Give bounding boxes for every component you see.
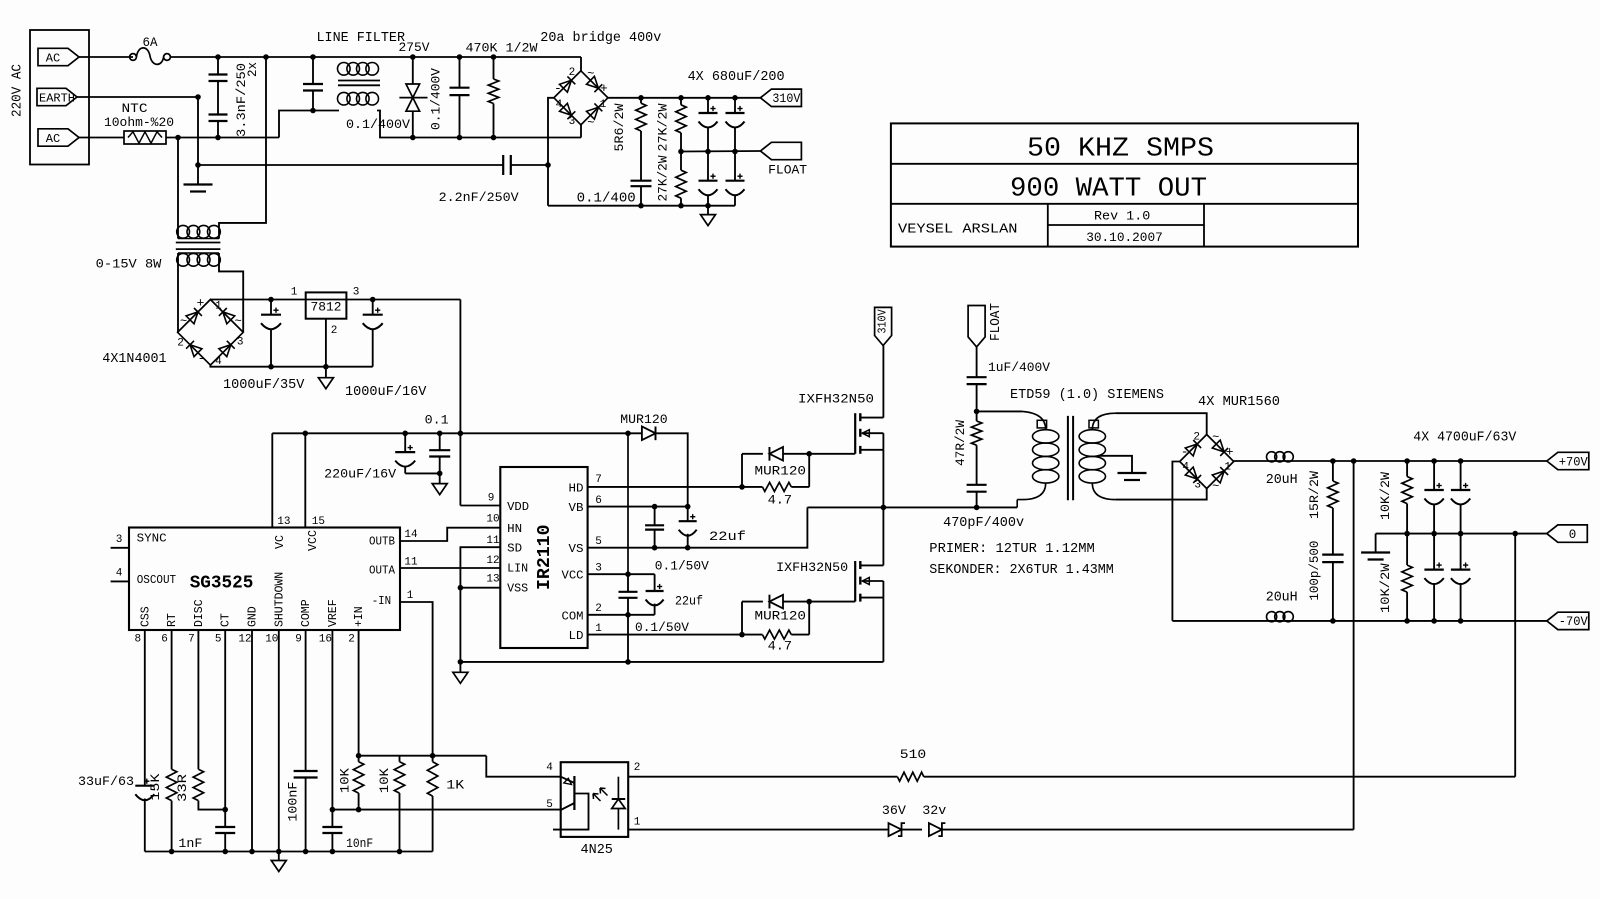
svg-text:32v: 32v (922, 804, 947, 818)
svg-text:SYNC: SYNC (137, 532, 167, 546)
svg-text:LIN: LIN (507, 562, 528, 576)
svg-text:22uf: 22uf (675, 594, 703, 609)
label 20a bridge 400v (540, 31, 661, 46)
svg-text:3.3nF/250: 3.3nF/250 (234, 63, 249, 137)
regulator 7812 (291, 287, 360, 367)
capacitor 680uF/200 #4 (726, 152, 745, 206)
node junction (652, 545, 658, 551)
capacitor 680uF/200 #1 (699, 98, 718, 152)
node junction (732, 95, 738, 101)
ground (453, 662, 468, 683)
node junction (402, 431, 408, 437)
wire (aux gnd rail) (210, 365, 372, 367)
svg-text:12: 12 (486, 555, 499, 567)
pin 4 OSCOUT (111, 568, 177, 587)
capacitor 0.1/400V (429, 57, 470, 138)
node junction (1458, 531, 1464, 537)
svg-text:10: 10 (265, 634, 278, 646)
node junction (437, 431, 443, 437)
title text 900 WATT OUT (1010, 175, 1207, 205)
wire (902, 829, 923, 831)
svg-text:1: 1 (595, 623, 602, 635)
wire (377, 111, 581, 138)
wire (198, 164, 503, 166)
svg-text:9: 9 (295, 634, 302, 646)
wire (to +70V rail) (1353, 461, 1355, 830)
svg-text:275V: 275V (399, 40, 430, 55)
label ETD59 (1010, 388, 1164, 403)
capacitor 0.1/50V (bootstrap) (645, 507, 709, 574)
node junction (249, 849, 255, 855)
capacitor 1000uF/16V (345, 300, 427, 401)
capacitor 100p/500 (1307, 541, 1344, 621)
aux transformer secondary winding 0-15V 8W (96, 253, 221, 272)
svg-text:11: 11 (404, 557, 418, 569)
svg-text:14: 14 (404, 529, 418, 541)
wire GND pin (251, 630, 253, 852)
svg-text:SD: SD (507, 542, 522, 556)
svg-text:0.1/400: 0.1/400 (577, 192, 636, 207)
capacitor 0.1/50V (vcc) (619, 574, 690, 635)
node junction (356, 753, 362, 759)
wire (secondary top) (1116, 413, 1207, 434)
wire (977, 410, 1022, 412)
svg-text:6: 6 (161, 634, 168, 646)
svg-text:SG3525: SG3525 (190, 573, 254, 594)
svg-text:VS: VS (569, 542, 584, 556)
wire (+12V rail over IR2110) (272, 432, 641, 434)
capacitor 4700uF/63V #1 (1424, 461, 1443, 534)
svg-text:3: 3 (595, 563, 602, 575)
svg-text:0.1/50V: 0.1/50V (635, 620, 689, 635)
svg-text:GND: GND (247, 606, 260, 627)
node junction (410, 54, 416, 60)
wire (secondary bottom) (1116, 489, 1207, 500)
wire (279, 111, 339, 138)
svg-text:15R/2W: 15R/2W (1307, 471, 1322, 519)
node junction (437, 471, 443, 477)
connector FLOAT (flag down) (968, 303, 1004, 347)
node junction (222, 849, 228, 855)
wire (580, 125, 582, 138)
svg-text:DISC: DISC (193, 599, 206, 627)
svg-text:220V AC: 220V AC (11, 64, 26, 117)
svg-text:0.1: 0.1 (425, 413, 449, 428)
capacitor 0.1/400V (line filter) (303, 84, 410, 132)
transistor IXFH32N50 (low side MOSFET) (776, 560, 883, 602)
wire (+12V to logic) (459, 300, 461, 506)
node junction (1404, 531, 1410, 537)
capacitor 4700uF/63V #2 (1451, 461, 1470, 534)
svg-text:VCC: VCC (306, 530, 320, 551)
svg-text:0-15V 8W: 0-15V 8W (96, 257, 162, 272)
node junction (1330, 458, 1336, 464)
pin 7 DISC label (188, 599, 206, 645)
wire (AC to aux transformer primary) (219, 57, 266, 239)
connector 310V (flag down) (875, 307, 892, 345)
title text VEYSEL ARSLAN (898, 222, 1018, 237)
svg-text:27K/2W: 27K/2W (655, 155, 670, 201)
varistor 275V (399, 40, 430, 138)
svg-text:RT: RT (166, 613, 179, 627)
svg-text:4: 4 (1182, 462, 1189, 474)
pin 1 (LED anode) (628, 817, 888, 830)
resistor 470K 1/2W (466, 41, 538, 138)
node junction (1458, 458, 1464, 464)
svg-text:310V: 310V (772, 91, 800, 106)
svg-text:2: 2 (331, 325, 338, 337)
pin 12 GND label (238, 606, 259, 645)
node junction (974, 409, 980, 415)
resistor 10K on +IN (337, 630, 364, 810)
svg-text:7: 7 (188, 634, 195, 646)
node junction (491, 135, 497, 141)
wire (half-bridge node to transformer) (807, 506, 1017, 508)
svg-text:4X 4700uF/63V: 4X 4700uF/63V (1413, 431, 1517, 446)
node junction (1458, 618, 1464, 624)
node junction (678, 203, 684, 209)
svg-text:6: 6 (595, 495, 602, 507)
wire (float rail) (681, 150, 760, 153)
label 4X MUR1560 (1198, 395, 1280, 410)
node junction (678, 95, 684, 101)
connector AC (line) (38, 48, 79, 65)
svg-text:2: 2 (177, 337, 184, 349)
node junction (457, 135, 463, 141)
svg-text:7: 7 (595, 474, 602, 486)
svg-text:10K/2W: 10K/2W (1378, 472, 1393, 520)
wire (bridge plus to 310V) (608, 97, 761, 99)
label SEKONDER (929, 563, 1114, 578)
capacitor 4700uF/63V #4 (1451, 534, 1470, 621)
svg-text:3: 3 (116, 534, 123, 546)
pin 3 SYNC (111, 532, 167, 548)
svg-text:~: ~ (587, 116, 594, 130)
label PRIMER (929, 542, 1095, 557)
pin 6 RT label (161, 613, 179, 645)
node junction (268, 364, 274, 370)
svg-text:310V: 310V (876, 309, 890, 334)
svg-text:AC: AC (46, 51, 60, 65)
resistor 10K/2W (lower) (1378, 534, 1412, 621)
wire (aux secondary right to bridge) (242, 300, 244, 332)
svg-text:6A: 6A (143, 35, 158, 50)
wire (627, 615, 629, 662)
wire (177, 138, 179, 239)
connector EARTH (37, 88, 77, 105)
svg-text:36V: 36V (882, 804, 907, 818)
pin 13 VSS (460, 574, 528, 596)
wire (logic gnd rail) (145, 851, 433, 853)
wire (-70V rail) (1172, 620, 1546, 622)
resistor 15R/2W (1307, 461, 1338, 555)
svg-text:2: 2 (348, 634, 355, 646)
node junction (458, 431, 464, 437)
node junction (458, 659, 464, 665)
pin 5 VS (569, 507, 808, 556)
title block frame (891, 123, 1358, 246)
node junction (410, 135, 416, 141)
svg-text:4: 4 (116, 568, 123, 580)
wire (bridge minus to DC- rail) (548, 98, 554, 206)
svg-text:IXFH32N50: IXFH32N50 (798, 392, 874, 407)
wire (bridge minus to -70 rail) (1172, 462, 1179, 621)
diode MUR120 + resistor 4.7 (low side gate) (739, 595, 855, 654)
svg-text:1K: 1K (446, 778, 464, 793)
connector +70V (1547, 452, 1589, 469)
svg-text:15K: 15K (148, 773, 163, 800)
label 0.1 (425, 413, 449, 428)
svg-text:3: 3 (569, 116, 576, 128)
optocoupler 4N25 body (561, 762, 629, 858)
svg-text:4X1N4001: 4X1N4001 (102, 352, 166, 367)
capacitor 22uf (vcc) (646, 574, 703, 615)
connector FLOAT (760, 142, 807, 177)
inductor 20uH (positive rail) (1266, 452, 1298, 489)
wire (low side source to gnd) (882, 598, 884, 662)
connector 310V (760, 89, 801, 106)
resistor 5R6/2W (612, 98, 646, 181)
bridge rectifier 4X MUR1560 (diamond) (1180, 431, 1234, 494)
svg-text:+IN: +IN (353, 606, 366, 627)
pin 13 VC (272, 433, 290, 549)
capacitor 4700uF/63V #3 (1424, 534, 1443, 621)
resistor 33R on DISC (175, 630, 225, 810)
svg-text:0.1/400V: 0.1/400V (346, 117, 410, 132)
capacitor 3.3nF/250 (lower of 2x) (209, 62, 261, 138)
node junction (1351, 458, 1357, 464)
node junction (276, 849, 282, 855)
diode MUR120 (bootstrap) (620, 412, 667, 440)
node junction (169, 849, 175, 855)
capacitor 10nF on VREF (322, 827, 373, 852)
wire (DC- rail) (548, 205, 735, 207)
svg-text:2: 2 (634, 762, 641, 774)
pin 14 OUTB (369, 528, 500, 549)
node junction (1404, 618, 1410, 624)
node junction (705, 203, 711, 209)
aux transformer primary winding (177, 225, 221, 238)
IC IR2110 body (500, 467, 587, 648)
node junction (974, 505, 980, 511)
connector AC (neutral) (38, 129, 79, 146)
IC SG3525 body (129, 528, 400, 631)
svg-text:2: 2 (595, 603, 602, 615)
svg-text:-: - (197, 351, 205, 366)
node junction (705, 95, 711, 101)
svg-text:~: ~ (587, 67, 594, 81)
capacitor 2.2nF/250V (439, 155, 548, 205)
svg-text:1uF/400V: 1uF/400V (988, 360, 1050, 375)
svg-text:COMP: COMP (300, 599, 313, 627)
wire (drain to 310V) (882, 346, 884, 418)
svg-text:1: 1 (634, 817, 641, 829)
pin 11 SD (460, 535, 522, 662)
fuse 6A (130, 35, 171, 64)
pin 6 VB (569, 495, 688, 515)
capacitor 1nF on CT (178, 630, 235, 852)
node junction (1431, 458, 1437, 464)
node junction (881, 505, 887, 511)
svg-text:13: 13 (486, 574, 499, 586)
svg-text:20uH: 20uH (1266, 591, 1298, 606)
node junction (652, 504, 658, 510)
node junction (1404, 458, 1410, 464)
svg-text:~: ~ (180, 314, 187, 328)
svg-text:22uf: 22uf (709, 529, 746, 544)
svg-text:VCC: VCC (562, 569, 584, 583)
svg-text:15: 15 (312, 516, 325, 528)
resistor 27K/2W (upper) (655, 98, 686, 152)
pin 9 COMP label (295, 599, 313, 645)
wire (to optocoupler pin4) (486, 756, 560, 777)
input terminal block 220V AC (11, 30, 90, 165)
pin 1 LD (569, 623, 743, 643)
wire SHUTDOWN pin (278, 630, 280, 852)
wire (aux secondary left to bridge) (177, 300, 179, 332)
svg-text:4X MUR1560: 4X MUR1560 (1198, 395, 1280, 410)
svg-text:10K/2W: 10K/2W (1378, 563, 1393, 613)
pin 2 COM (562, 603, 655, 623)
wire (312, 57, 314, 84)
svg-text:HD: HD (569, 482, 584, 496)
svg-text:10: 10 (486, 514, 499, 526)
node junction (732, 149, 738, 155)
capacitor 0.1 (bypass) (429, 433, 450, 473)
svg-text:5: 5 (595, 536, 602, 548)
title text Rev 1.0 (1094, 209, 1150, 223)
wire (half-bridge node) (882, 450, 884, 566)
svg-text:FLOAT: FLOAT (768, 163, 807, 178)
node junction (545, 162, 551, 168)
svg-text:OUTB: OUTB (369, 535, 395, 549)
svg-text:1000uF/16V: 1000uF/16V (345, 385, 427, 400)
svg-text:33R: 33R (175, 774, 190, 802)
wire (942, 829, 1354, 831)
svg-text:5R6/2W: 5R6/2W (612, 103, 627, 151)
svg-text:-: - (554, 81, 562, 96)
svg-text:47R/2W: 47R/2W (953, 420, 968, 466)
svg-text:50 KHZ SMPS: 50 KHZ SMPS (1027, 135, 1214, 165)
svg-text:13: 13 (277, 516, 290, 528)
wire (219, 253, 243, 300)
pin 5 (emitter) (546, 799, 553, 811)
capacitor 100nF on COMP (286, 630, 318, 852)
node junction (310, 54, 316, 60)
svg-text:OSCOUT: OSCOUT (137, 573, 176, 587)
title text 50 KHZ SMPS (1027, 135, 1214, 165)
node junction (705, 149, 711, 155)
capacitor 680uF/200 #2 (726, 98, 745, 152)
svg-text:2.2nF/250V: 2.2nF/250V (439, 190, 519, 205)
svg-text:VDD: VDD (507, 500, 529, 514)
ground (432, 473, 447, 494)
node junction (685, 504, 691, 510)
thermistor NTC 10ohm-%20 (104, 101, 174, 144)
title text 30.10.2007 (1086, 230, 1163, 245)
node junction (625, 431, 631, 437)
svg-text:1: 1 (1224, 462, 1231, 474)
node junction (323, 364, 329, 370)
node junction (195, 162, 201, 168)
wire VREF pin (331, 630, 333, 827)
connector -70V (1547, 612, 1589, 629)
resistor 10K/2W (upper) (1378, 461, 1412, 534)
svg-text:~: ~ (1212, 480, 1219, 494)
svg-text:VB: VB (569, 501, 584, 515)
svg-text:SHUTDOWN: SHUTDOWN (273, 572, 286, 627)
node junction (330, 807, 336, 813)
node junction (638, 203, 644, 209)
svg-text:2: 2 (569, 67, 576, 79)
svg-text:470pF/400v: 470pF/400v (943, 516, 1024, 531)
svg-text:1: 1 (291, 287, 298, 299)
svg-text:+: + (196, 296, 204, 311)
svg-text:VREF: VREF (327, 599, 340, 627)
svg-text:11: 11 (486, 535, 500, 547)
node junction (397, 849, 403, 855)
wire (driver gnd rail) (460, 661, 883, 663)
transistor IXFH32N50 (high side MOSFET) (798, 392, 883, 454)
capacitor 0.1/400 (snubber) (577, 181, 652, 207)
svg-text:0.1/50V: 0.1/50V (655, 558, 709, 573)
svg-text:CSS: CSS (139, 606, 152, 627)
svg-text:16: 16 (319, 634, 332, 646)
svg-text:30.10.2007: 30.10.2007 (1086, 230, 1163, 245)
svg-text:OUTA: OUTA (369, 563, 396, 577)
svg-text:IXFH32N50: IXFH32N50 (776, 560, 848, 575)
node junction (638, 95, 644, 101)
svg-text:10ohm-%20: 10ohm-%20 (104, 115, 174, 130)
svg-text:NTC: NTC (122, 101, 148, 116)
node junction (303, 849, 309, 855)
svg-text:VEYSEL ARSLAN: VEYSEL ARSLAN (898, 222, 1018, 237)
svg-text:470K 1/2W: 470K 1/2W (466, 41, 538, 56)
node junction (625, 659, 631, 665)
node junction (430, 753, 436, 759)
pin 12 LIN (486, 555, 528, 576)
node junction (303, 431, 309, 437)
connector 0 (1547, 525, 1588, 542)
svg-text:+: + (1226, 445, 1234, 460)
pin 2 +IN label (348, 606, 366, 645)
earth ground (184, 185, 213, 192)
bridge rectifier 20a 400v (diamond) (554, 67, 608, 130)
svg-text:MUR120: MUR120 (755, 608, 807, 623)
node junction (268, 297, 274, 303)
bridge rectifier 4X1N4001 (diamond) (102, 296, 243, 369)
svg-text:1nF: 1nF (178, 836, 202, 851)
svg-text:~: ~ (235, 314, 242, 328)
pin 4 (collector) (546, 762, 553, 774)
node junction (457, 54, 463, 60)
pin 2 (LED cathode) (628, 762, 897, 777)
svg-text:CT: CT (220, 613, 233, 627)
label LINE FILTER (317, 31, 406, 46)
label 4X 4700uF/63V (1413, 431, 1517, 446)
svg-text:12: 12 (238, 634, 251, 646)
resistor 47R/2W (953, 411, 982, 484)
svg-text:510: 510 (900, 747, 926, 762)
wire (+12 raw rail) (210, 299, 460, 301)
wire (79, 56, 133, 58)
wire (197, 165, 199, 185)
node junction (330, 849, 336, 855)
capacitor 3.3nF/250 (upper of 2x) (209, 57, 228, 115)
svg-text:-: - (1181, 445, 1189, 460)
svg-text:9: 9 (488, 492, 495, 504)
svg-text:100p/500: 100p/500 (1307, 541, 1322, 601)
